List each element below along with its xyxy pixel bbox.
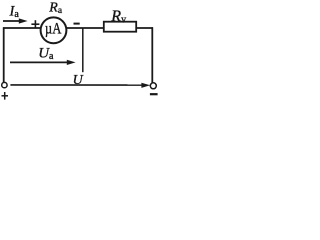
minus polarity mark at right terminal <box>150 93 158 95</box>
plus polarity mark at left terminal <box>2 92 9 100</box>
voltage arrow Ua <box>10 60 76 65</box>
node A junction drop line (right end of Ua span) <box>82 28 84 72</box>
wire right vertical <box>151 27 153 82</box>
resistor Rv <box>104 22 136 32</box>
terminal right (-) <box>150 83 156 89</box>
microammeter P1 (uA galvanometer, internal resistance Ra) <box>41 17 67 43</box>
wire resistor to right corner <box>136 27 153 29</box>
plus polarity mark at meter input <box>31 20 39 28</box>
wire left vertical <box>3 27 5 82</box>
current arrow Ia <box>3 18 28 23</box>
minus polarity mark at meter output <box>74 23 80 25</box>
wire top left <box>3 27 41 29</box>
terminal left (+) <box>2 82 7 87</box>
wire meter to resistor <box>66 27 104 29</box>
voltage arrow U <box>10 83 150 88</box>
svg-text:µA: µA <box>45 20 62 37</box>
